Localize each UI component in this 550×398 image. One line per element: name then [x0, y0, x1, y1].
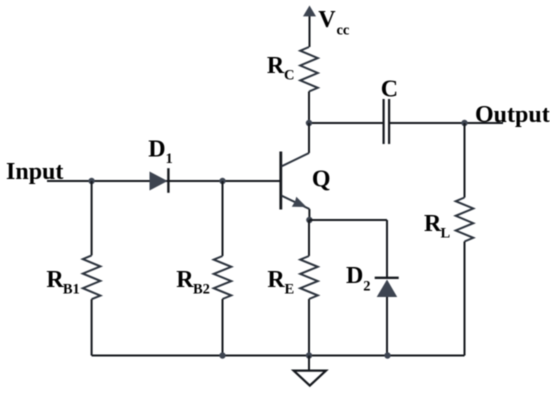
svg-text:E: E	[285, 282, 295, 298]
svg-text:R: R	[424, 211, 442, 237]
svg-text:C: C	[284, 68, 294, 84]
svg-text:Output: Output	[475, 102, 550, 128]
svg-text:R: R	[176, 267, 194, 293]
svg-text:1: 1	[166, 151, 173, 167]
svg-text:D: D	[346, 263, 363, 289]
svg-text:R: R	[46, 267, 64, 293]
svg-text:R: R	[267, 53, 285, 79]
svg-text:V: V	[318, 7, 336, 33]
svg-text:C: C	[381, 77, 398, 103]
svg-text:B2: B2	[193, 282, 210, 298]
svg-text:Input: Input	[6, 159, 63, 185]
svg-text:Q: Q	[312, 167, 331, 193]
svg-text:R: R	[267, 267, 285, 293]
svg-text:2: 2	[363, 279, 370, 295]
svg-text:L: L	[441, 226, 451, 242]
svg-text:cc: cc	[337, 23, 350, 39]
svg-text:D: D	[148, 136, 165, 162]
svg-text:B1: B1	[63, 282, 80, 298]
